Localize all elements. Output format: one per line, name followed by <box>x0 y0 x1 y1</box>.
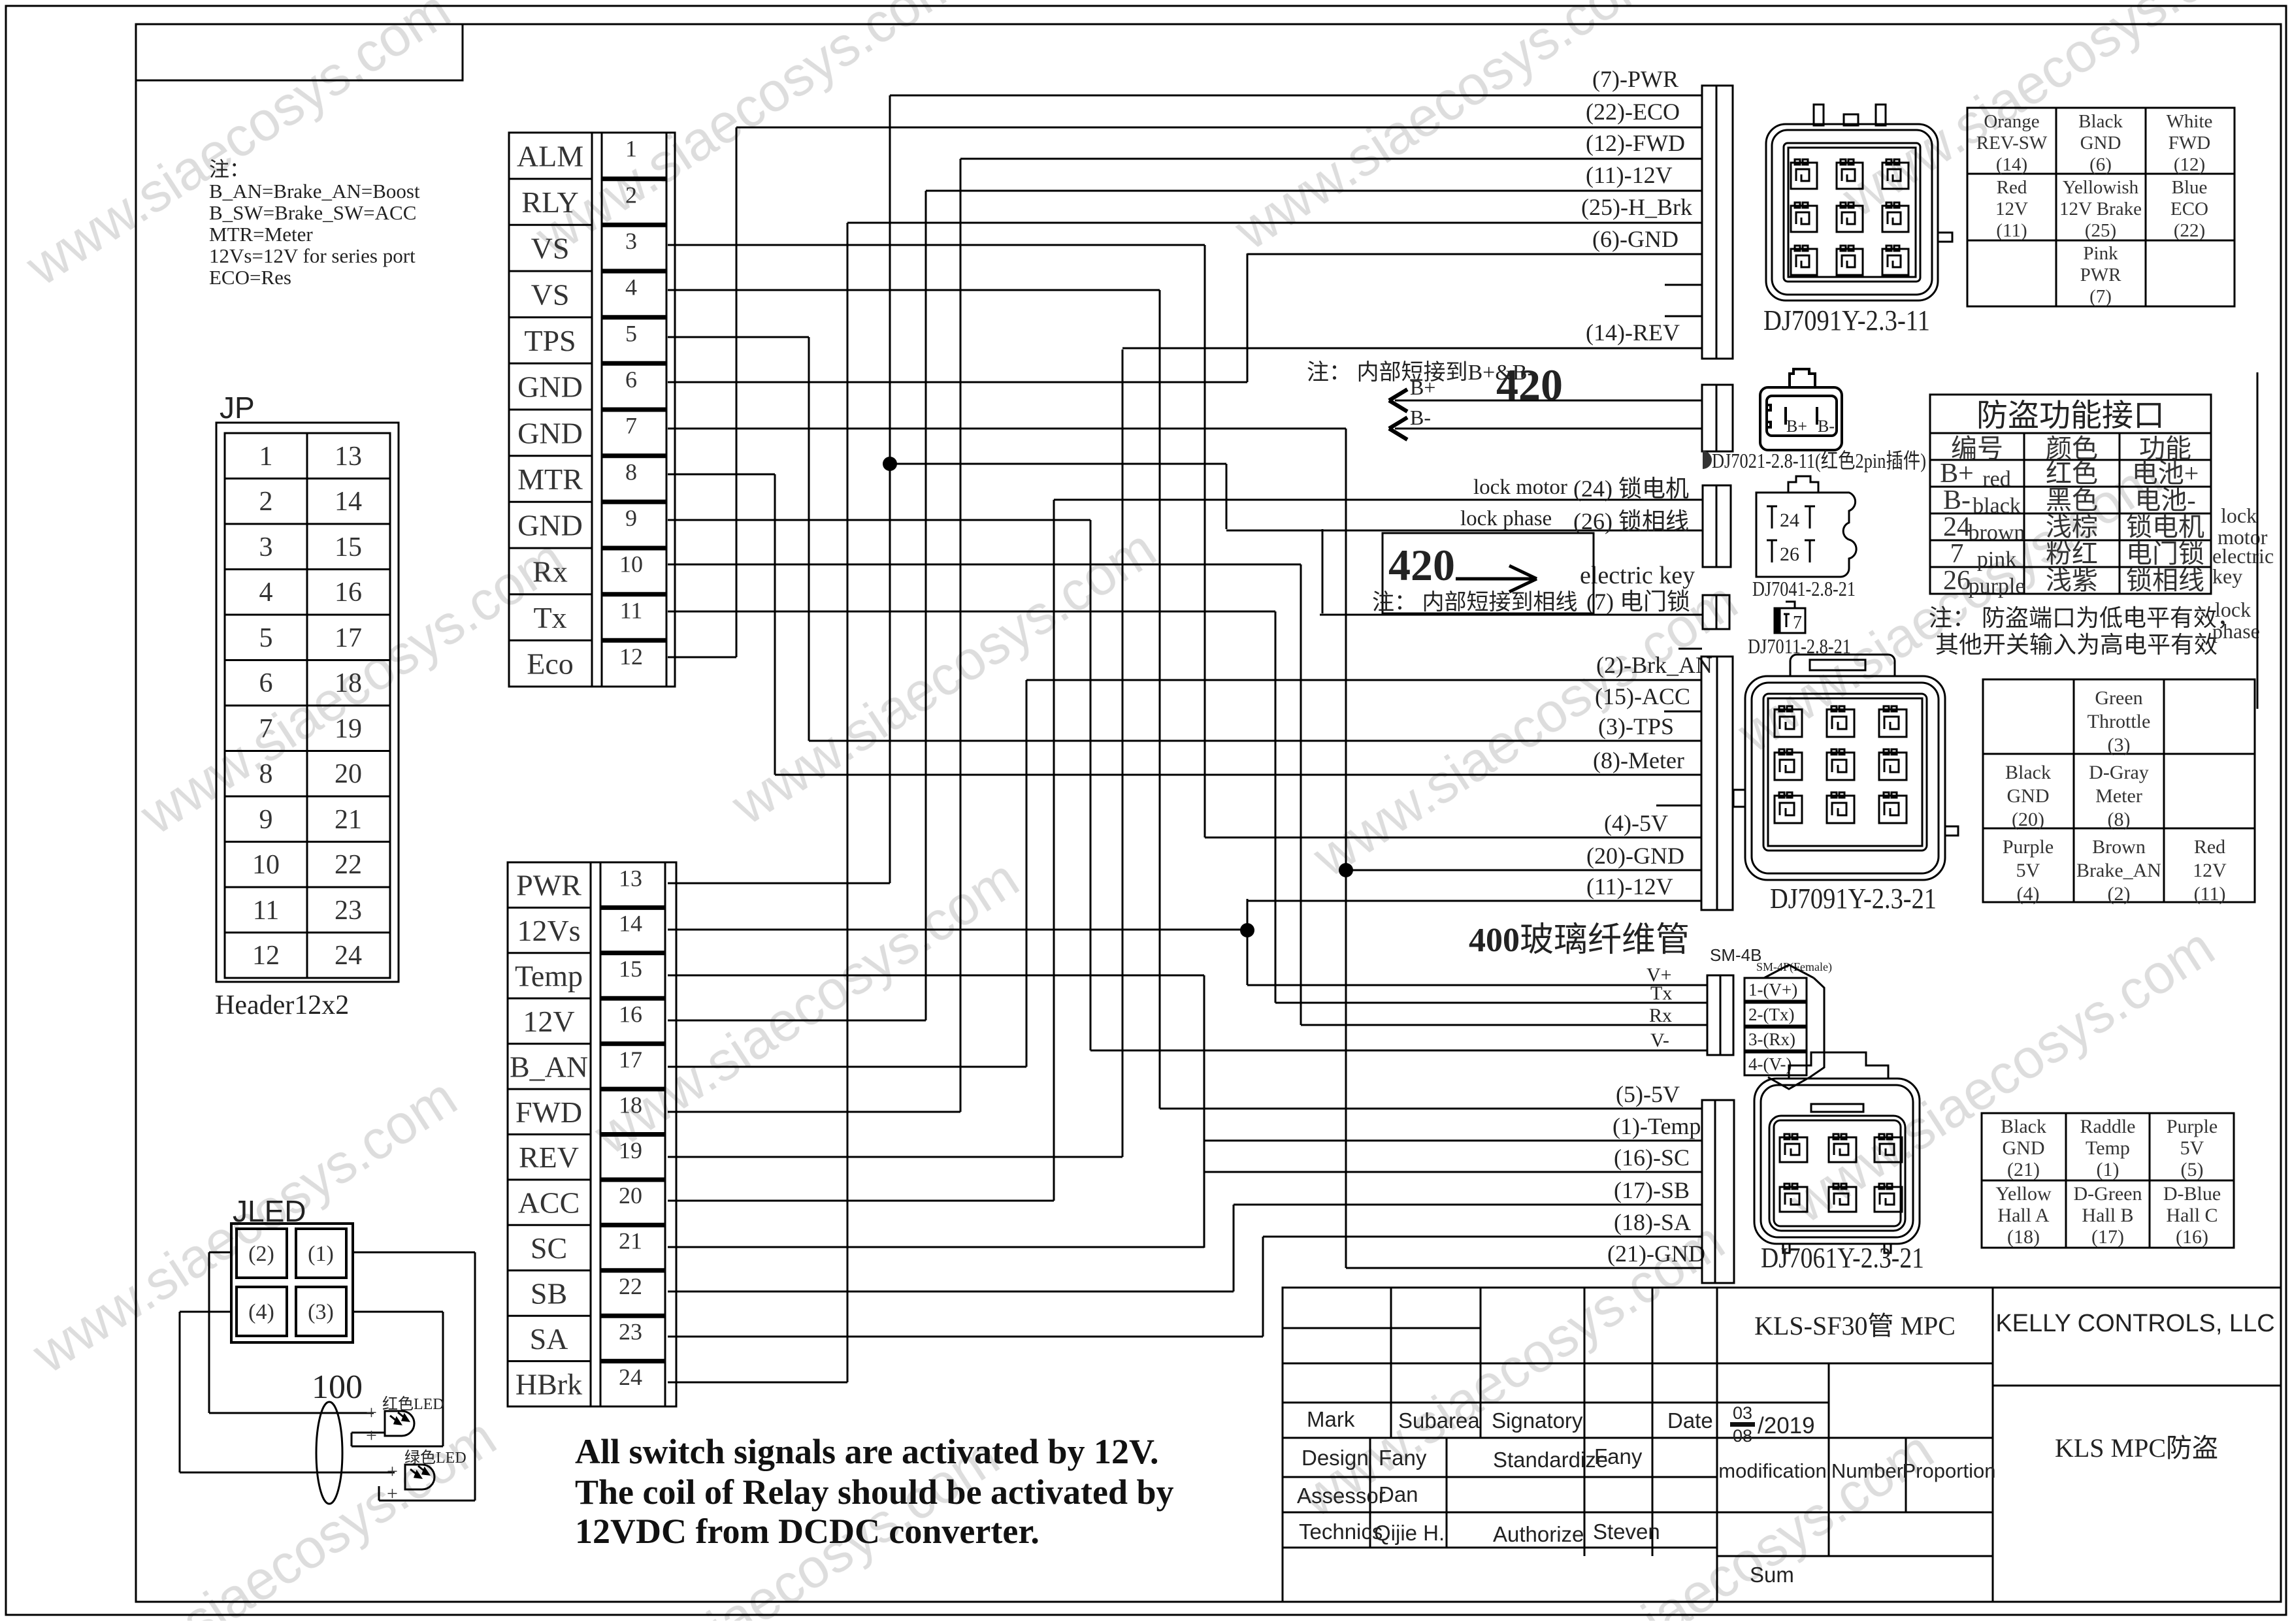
connector DJ7061Y-2.3-21 <box>1754 1052 1920 1253</box>
svg-text:浅紫: 浅紫 <box>2046 566 2098 595</box>
red LED <box>385 1411 414 1436</box>
svg-text:Rx: Rx <box>532 555 568 588</box>
svg-text:注：: 注： <box>209 158 250 181</box>
svg-text:Technics: Technics <box>1299 1519 1383 1544</box>
svg-text:16: 16 <box>619 1001 642 1028</box>
wire <box>180 1472 395 1474</box>
svg-text:Temp: Temp <box>2086 1137 2130 1159</box>
svg-text:14: 14 <box>619 911 642 937</box>
svg-text:Steven: Steven <box>1593 1519 1660 1544</box>
svg-text:12V: 12V <box>2193 860 2227 881</box>
svg-text:Sum: Sum <box>1750 1563 1794 1587</box>
wire TPS trunk <box>808 337 810 741</box>
wire GND7 trunk <box>1345 429 1347 1268</box>
bus bar DJ7091Y-2.3-11 <box>1702 86 1733 359</box>
JLED pin (3) box <box>296 1287 346 1336</box>
svg-text:GND: GND <box>517 509 583 542</box>
svg-text:Date: Date <box>1667 1408 1713 1433</box>
svg-text:Standardize: Standardize <box>1493 1448 1608 1472</box>
wire Rx <box>1301 1024 1707 1026</box>
wire (1)-Temp <box>1204 1140 1702 1142</box>
svg-text:REV: REV <box>519 1141 579 1174</box>
svg-text:2: 2 <box>625 182 637 208</box>
svg-text:14: 14 <box>335 487 362 517</box>
svg-text:12: 12 <box>252 941 280 971</box>
svg-text:Number: Number <box>1831 1459 1903 1482</box>
svg-text:其他开关输入为高电平有效: 其他开关输入为高电平有效 <box>1935 632 2218 658</box>
svg-text:red: red <box>1982 467 2010 491</box>
svg-text:(7): (7) <box>2089 286 2112 307</box>
svg-text:SM-4B: SM-4B <box>1710 945 1761 965</box>
svg-text:24: 24 <box>1780 510 1799 531</box>
svg-text:(8)-Meter: (8)-Meter <box>1593 747 1684 773</box>
svg-text:Dan: Dan <box>1379 1482 1418 1506</box>
svg-text:(17): (17) <box>2091 1226 2124 1248</box>
svg-text:(18): (18) <box>2007 1226 2040 1248</box>
svg-text:(16)-SC: (16)-SC <box>1614 1145 1690 1171</box>
upper strip pin labels <box>517 139 583 680</box>
wire (8)-Meter <box>775 774 1702 776</box>
svg-text:12VDC from DCDC converter.: 12VDC from DCDC converter. <box>575 1512 1040 1551</box>
svg-text:Orange: Orange <box>1984 111 2039 132</box>
wire <box>179 1312 181 1472</box>
wire (21)-GND <box>1346 1267 1702 1269</box>
wire (20)-GND <box>1346 869 1702 871</box>
svg-text:7: 7 <box>625 413 637 439</box>
svg-text:4: 4 <box>625 274 637 300</box>
svg-text:B_AN=Brake_AN=Boost: B_AN=Brake_AN=Boost <box>209 180 420 203</box>
svg-text:黑色: 黑色 <box>2046 485 2098 515</box>
svg-text:(2): (2) <box>248 1242 274 1266</box>
svg-text:Tx: Tx <box>533 601 566 634</box>
wire (22)-ECO <box>736 127 1702 129</box>
svg-text:26: 26 <box>1780 544 1799 565</box>
svg-text:红色: 红色 <box>2046 459 2098 488</box>
svg-text:420: 420 <box>1496 360 1563 410</box>
svg-text:lock phase: lock phase <box>1460 507 1552 530</box>
svg-text:Red: Red <box>1997 177 2027 198</box>
svg-text:Rx: Rx <box>1649 1005 1672 1026</box>
svg-text:(11)-12V: (11)-12V <box>1586 873 1673 900</box>
svg-text:GND: GND <box>2080 133 2121 154</box>
svg-text:Fany: Fany <box>1594 1444 1643 1469</box>
wire JLED pin1 <box>353 1252 475 1254</box>
JP header rows <box>225 478 390 479</box>
svg-text:(15)-ACC: (15)-ACC <box>1595 683 1690 709</box>
svg-text:(21): (21) <box>2007 1159 2040 1180</box>
svg-text:KELLY CONTROLS, LLC: KELLY CONTROLS, LLC <box>1995 1310 2274 1337</box>
svg-text:03: 03 <box>1733 1403 1752 1423</box>
svg-text:17: 17 <box>619 1047 642 1073</box>
svg-text:purple: purple <box>1969 574 2025 598</box>
wire lock motor (24) <box>1054 499 1702 501</box>
lower strip pin labels <box>510 869 588 1401</box>
wire TPS pin5 <box>668 336 809 338</box>
svg-text:(6)-GND: (6)-GND <box>1592 226 1678 252</box>
svg-text:(24) 锁电机: (24) 锁电机 <box>1573 476 1689 502</box>
svg-text:Pink: Pink <box>2083 243 2118 264</box>
wire VS4-5V trunk <box>1159 290 1161 1109</box>
svg-text:4: 4 <box>259 577 273 608</box>
svg-text:Purple: Purple <box>2167 1116 2218 1137</box>
svg-text:20: 20 <box>335 759 362 789</box>
svg-text:19: 19 <box>335 714 362 744</box>
wire H_Brk trunk <box>847 223 849 1382</box>
svg-text:420: 420 <box>1388 540 1455 590</box>
wire stub pin <box>1665 316 1702 317</box>
JLED connector outer box <box>231 1224 353 1342</box>
svg-text:26: 26 <box>1943 566 1971 596</box>
wire Temp-SC trunk <box>1203 975 1205 1248</box>
wire <box>352 1432 385 1434</box>
svg-text:D-Gray: D-Gray <box>2089 762 2149 783</box>
svg-text:Yellow: Yellow <box>1995 1183 2052 1205</box>
wire FWD trunk <box>960 159 962 1112</box>
svg-text:Hall A: Hall A <box>1997 1205 2049 1226</box>
svg-text:8: 8 <box>625 459 637 485</box>
svg-text:注： 内部短接到相线: 注： 内部短接到相线 <box>1372 590 1578 615</box>
svg-text:JP: JP <box>220 391 255 425</box>
side annotations lock motor/electric key/lock phase <box>2212 504 2274 643</box>
svg-text:Throttle: Throttle <box>2087 711 2151 732</box>
svg-text:(25)-H_Brk: (25)-H_Brk <box>1581 194 1692 220</box>
svg-text:Tx: Tx <box>1650 983 1672 1004</box>
svg-text:(14)-REV: (14)-REV <box>1586 319 1680 346</box>
JLED pin (4) box <box>237 1287 287 1336</box>
wire (7)-PWR <box>890 95 1702 97</box>
wire 12Vs pin14 <box>668 929 1247 931</box>
wire SC pin21 <box>668 1246 1204 1248</box>
wire PWR-key jog <box>1226 464 1228 529</box>
connector DJ7021-2.8-11 <box>1760 369 1842 450</box>
svg-text:Qijie H.: Qijie H. <box>1374 1521 1445 1545</box>
svg-text:7: 7 <box>259 714 273 744</box>
svg-text:KLS MPC防盗: KLS MPC防盗 <box>2055 1433 2218 1463</box>
svg-text:black: black <box>1973 494 2021 518</box>
wire stub <box>1656 805 1702 807</box>
svg-text:All switch signals are activat: All switch signals are activated by 12V. <box>575 1432 1159 1471</box>
svg-text:DJ7061Y-2.3-21: DJ7061Y-2.3-21 <box>1761 1242 1924 1274</box>
svg-text:DJ7091Y-2.3-21: DJ7091Y-2.3-21 <box>1770 883 1937 915</box>
wire electric key (7) <box>1320 614 1702 616</box>
svg-text:B+: B+ <box>1940 459 1974 489</box>
svg-text:11: 11 <box>253 896 279 926</box>
svg-text:Black: Black <box>2078 111 2123 132</box>
svg-text:Signatory: Signatory <box>1492 1408 1583 1433</box>
bus bar DJ7091Y-2.3-21 <box>1701 657 1733 910</box>
svg-text:(11): (11) <box>2194 883 2226 905</box>
wire Tx trunk <box>1275 611 1277 1003</box>
wire V+ <box>1247 984 1707 986</box>
wire GND pin7 <box>668 428 1346 430</box>
JP header pin numbers <box>252 442 362 971</box>
svg-text:5V: 5V <box>2016 860 2040 881</box>
wire 12Vs-V+ trunk <box>1247 899 1249 985</box>
label DJ7021-2.8-11 <box>1703 451 1712 469</box>
svg-text:Raddle: Raddle <box>2080 1116 2136 1137</box>
svg-text:Green: Green <box>2095 687 2142 709</box>
svg-text:24: 24 <box>335 941 362 971</box>
svg-text:9: 9 <box>625 505 637 531</box>
anti-theft function table <box>1930 395 2211 594</box>
wire (11)-12V mid <box>1247 900 1702 902</box>
wire stub pin <box>1665 284 1702 286</box>
svg-text:Brake_AN: Brake_AN <box>2076 860 2161 881</box>
svg-text:(1)-Temp: (1)-Temp <box>1613 1113 1701 1139</box>
svg-text:Mark: Mark <box>1307 1407 1355 1431</box>
svg-text:5: 5 <box>259 623 273 653</box>
svg-text:(4)-5V: (4)-5V <box>1604 810 1668 836</box>
bus bar DJ7061Y-2.3-21 <box>1702 1100 1734 1283</box>
wire (4)-5V <box>1205 837 1702 839</box>
wire (12)-FWD <box>960 158 1702 160</box>
svg-text:Hall C: Hall C <box>2166 1205 2218 1226</box>
svg-text:(18)-SA: (18)-SA <box>1614 1209 1691 1235</box>
wire B- <box>1395 428 1702 430</box>
svg-text:21: 21 <box>335 805 362 835</box>
wire Tx <box>1275 1002 1707 1004</box>
color table DJ7061Y-2.3-21 <box>1982 1113 2234 1248</box>
wire PWR branch <box>890 463 1226 465</box>
wire VS3-5V trunk <box>1204 245 1206 837</box>
svg-text:lock: lock <box>2215 598 2251 621</box>
connector DJ7091Y-2.3-11 <box>1766 105 1952 300</box>
wire ACC pin20 <box>668 1200 1054 1202</box>
svg-text:100: 100 <box>312 1369 363 1406</box>
wire <box>474 1252 476 1501</box>
svg-text:Black: Black <box>2005 762 2051 783</box>
svg-text:(22)-ECO: (22)-ECO <box>1586 99 1680 125</box>
wire VS pin3 <box>668 244 1205 246</box>
svg-text:B_SW=Brake_SW=ACC: B_SW=Brake_SW=ACC <box>209 201 416 224</box>
svg-text:brown: brown <box>1969 521 2025 545</box>
svg-text:ECO: ECO <box>2170 199 2208 219</box>
wire 12V pin16 <box>668 1020 926 1022</box>
color table DJ7091Y-2.3-11 <box>1967 108 2235 306</box>
svg-text:VS: VS <box>531 232 570 265</box>
svg-text:(20): (20) <box>2012 809 2044 830</box>
box around 420 <box>1383 533 1594 613</box>
wire (17)-SB <box>1234 1204 1702 1206</box>
JP header outer box <box>216 423 399 982</box>
wire lock phase (26) <box>1226 530 1702 532</box>
svg-text:1: 1 <box>625 136 637 162</box>
svg-text:3: 3 <box>625 228 637 254</box>
svg-text:B+: B+ <box>1786 417 1807 436</box>
svg-text:/2019: /2019 <box>1758 1413 1815 1438</box>
svg-text:HBrk: HBrk <box>516 1367 582 1401</box>
svg-text:Header12x2: Header12x2 <box>215 990 349 1020</box>
svg-text:10: 10 <box>252 850 280 880</box>
svg-text:锁电机: 锁电机 <box>2126 512 2204 542</box>
wire PWR trunk <box>889 95 891 883</box>
wire (6)-GND <box>1247 253 1702 255</box>
upper strip pin numbers <box>619 136 643 670</box>
svg-text:RLY: RLY <box>521 186 578 219</box>
svg-text:红色LED: 红色LED <box>382 1395 444 1413</box>
svg-text:Eco: Eco <box>527 647 574 681</box>
svg-text:电池-: 电池- <box>2135 485 2195 515</box>
svg-text:注： 防盗端口为低电平有效，: 注： 防盗端口为低电平有效， <box>1929 605 2240 631</box>
wire JLED pin2 <box>209 1252 231 1254</box>
svg-text:(7) 电门锁: (7) 电门锁 <box>1586 589 1690 615</box>
svg-text:16: 16 <box>335 577 362 608</box>
svg-text:(4): (4) <box>2017 883 2040 905</box>
svg-text:12Vs=12V for series port: 12Vs=12V for series port <box>209 244 416 267</box>
svg-text:4-(V-): 4-(V-) <box>1748 1054 1792 1074</box>
svg-text:phase: phase <box>2212 619 2260 643</box>
wire <box>351 1433 353 1446</box>
svg-text:GND: GND <box>517 416 583 449</box>
svg-text:7: 7 <box>1793 613 1802 633</box>
wire REV pin19 <box>668 1156 1122 1158</box>
junction GND <box>1339 863 1353 877</box>
wire VS pin4 <box>668 289 1160 291</box>
svg-text:6: 6 <box>625 366 637 393</box>
svg-text:Temp: Temp <box>515 960 583 993</box>
svg-text:+: + <box>366 1425 377 1446</box>
wire <box>352 1446 443 1448</box>
svg-text:(20)-GND: (20)-GND <box>1586 843 1684 869</box>
connector DJ7011-2.8-21 <box>1775 602 1805 633</box>
svg-text:锁相线: 锁相线 <box>2126 566 2204 595</box>
wire Rx trunk <box>1300 564 1302 1025</box>
lower strip row separators <box>508 907 591 909</box>
bus bar DJ7021-2.8-11 <box>1702 385 1733 451</box>
JLED pin (2) box <box>237 1229 287 1278</box>
svg-text:18: 18 <box>335 668 362 698</box>
svg-text:TPS: TPS <box>524 324 576 357</box>
connector SM-4P female <box>1744 965 1824 1089</box>
wire MTR trunk <box>774 474 776 775</box>
svg-text:15: 15 <box>619 956 642 982</box>
wire JLED pin3 <box>353 1311 443 1313</box>
wire B_AN pin17 <box>668 1066 1026 1068</box>
wire GND pin9 <box>668 519 1090 521</box>
wire key drop <box>1322 529 1324 613</box>
svg-text:GND: GND <box>2007 785 2050 807</box>
svg-text:electric key: electric key <box>1580 562 1695 589</box>
bottom remark text <box>575 1432 1174 1551</box>
wire <box>442 1312 444 1446</box>
upper terminal strip J1 outer box <box>509 133 675 687</box>
wire PWR pin13 <box>668 883 890 885</box>
svg-text:18: 18 <box>619 1092 642 1118</box>
svg-text:SC: SC <box>531 1231 567 1265</box>
svg-text:REV-SW: REV-SW <box>1976 133 2048 154</box>
svg-text:White: White <box>2167 111 2213 132</box>
svg-text:(3): (3) <box>308 1300 334 1324</box>
svg-text:(26) 锁相线: (26) 锁相线 <box>1573 508 1689 534</box>
svg-text:(8): (8) <box>2108 809 2131 830</box>
svg-text:(5)-5V: (5)-5V <box>1616 1081 1680 1107</box>
wire ACC-lockmotor trunk <box>1053 500 1055 1201</box>
svg-text:12V Brake: 12V Brake <box>2059 199 2142 219</box>
svg-text:浅棕: 浅棕 <box>2046 512 2098 542</box>
svg-text:12Vs: 12Vs <box>517 914 580 947</box>
svg-text:防盗功能接口: 防盗功能接口 <box>1976 398 2165 433</box>
svg-text:(16): (16) <box>2176 1226 2208 1248</box>
svg-text:13: 13 <box>619 865 642 891</box>
wire GND6 trunk <box>1247 253 1249 382</box>
svg-text:PWR: PWR <box>516 869 581 902</box>
svg-text:Subarea: Subarea <box>1398 1408 1480 1433</box>
svg-text:(6): (6) <box>2089 154 2112 175</box>
svg-text:+: + <box>387 1483 398 1504</box>
JP header inner box <box>225 433 390 978</box>
svg-text:电池+: 电池+ <box>2132 459 2199 488</box>
svg-text:DJ7091Y-2.3-11: DJ7091Y-2.3-11 <box>1763 304 1930 336</box>
svg-text:2: 2 <box>259 487 273 517</box>
svg-text:lock motor: lock motor <box>1473 476 1567 499</box>
svg-text:ACC: ACC <box>518 1186 580 1220</box>
svg-text:(22): (22) <box>2174 220 2205 241</box>
svg-text:GND: GND <box>517 370 583 404</box>
svg-text:9: 9 <box>259 805 273 835</box>
wire <box>378 1486 380 1501</box>
svg-text:Hall B: Hall B <box>2082 1205 2133 1226</box>
wire 12V trunk <box>925 191 927 1020</box>
arrowhead B+ <box>1389 389 1407 412</box>
wire HBrk pin24 <box>668 1382 847 1384</box>
svg-text:12V: 12V <box>1995 199 2028 219</box>
svg-text:V-: V- <box>1650 1030 1669 1051</box>
connector DJ7041-2.8-21 <box>1756 476 1856 577</box>
notes text block <box>209 158 420 289</box>
wire (18)-SA <box>1263 1236 1702 1238</box>
svg-text:MTR=Meter: MTR=Meter <box>209 223 313 246</box>
wire GND pin6 <box>668 382 1247 383</box>
wire (3)-TPS <box>809 740 1702 742</box>
svg-text:ALM: ALM <box>517 139 583 172</box>
JLED pin (1) box <box>296 1229 346 1278</box>
wire <box>209 1412 374 1414</box>
svg-text:lock: lock <box>2221 504 2257 527</box>
svg-text:B-: B- <box>1943 485 1971 515</box>
svg-text:PWR: PWR <box>2080 265 2122 285</box>
svg-text:7: 7 <box>1950 539 1964 569</box>
svg-text:24: 24 <box>1943 512 1971 542</box>
bus bar DJ7011-2.8-21 <box>1703 595 1729 629</box>
cable bundle ellipse <box>316 1402 342 1504</box>
svg-text:Authorize: Authorize <box>1493 1522 1584 1546</box>
wire Eco pin12 <box>668 657 736 658</box>
svg-text:(11)-12V: (11)-12V <box>1586 162 1673 188</box>
svg-text:B-: B- <box>1410 406 1431 429</box>
JP header column divider <box>306 433 308 978</box>
svg-text:5: 5 <box>625 320 637 346</box>
bus bar DJ7041-2.8-21 <box>1703 485 1731 567</box>
svg-text:(17)-SB: (17)-SB <box>1614 1177 1690 1203</box>
svg-text:22: 22 <box>619 1273 642 1299</box>
wire SA pin23 <box>668 1336 1263 1338</box>
svg-text:KLS-SF30管 MPC: KLS-SF30管 MPC <box>1754 1311 1956 1340</box>
date 03/08/2019 <box>1730 1403 1815 1446</box>
svg-text:Design: Design <box>1302 1446 1369 1470</box>
svg-text:24: 24 <box>619 1364 642 1390</box>
svg-text:(2): (2) <box>2108 883 2131 905</box>
svg-text:pink: pink <box>1977 547 2016 572</box>
connector DJ7091Y-2.3-21 <box>1733 655 1958 880</box>
svg-text:(5): (5) <box>2181 1159 2204 1180</box>
svg-text:GND: GND <box>2003 1137 2045 1159</box>
svg-text:(7)-PWR: (7)-PWR <box>1592 66 1678 92</box>
svg-text:17: 17 <box>335 623 362 653</box>
svg-text:SA: SA <box>530 1322 568 1356</box>
green LED <box>405 1465 434 1489</box>
wire FWD pin18 <box>668 1111 960 1113</box>
svg-text:3: 3 <box>259 532 273 562</box>
